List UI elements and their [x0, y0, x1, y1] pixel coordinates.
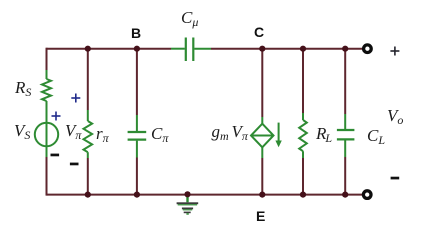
- wire: top rail left of C_mu (node B net): [47, 48, 172, 50]
- junction dot at dependent source bottom: [259, 192, 265, 198]
- junction dot node B at r_pi top: [85, 46, 91, 52]
- wire: r_pi branch verticals: [87, 48, 89, 196]
- wire: C_pi branch verticals: [136, 48, 138, 196]
- junction dot at ground (node E): [184, 191, 190, 197]
- minus sign of V_S: [51, 154, 60, 157]
- svg-text:C: C: [254, 24, 264, 40]
- voltage source V_S: [35, 123, 58, 157]
- wire: R_L branch verticals: [302, 48, 304, 196]
- wire: dependent source branch verticals: [261, 48, 263, 196]
- output terminal top (ring): [364, 45, 372, 53]
- junction dot at C_L top: [342, 46, 348, 52]
- capacitor C_pi: [128, 115, 147, 158]
- junction dot at R_L bottom: [300, 192, 306, 198]
- wire: top rail right of C_mu to output terminal (node C net): [211, 48, 363, 50]
- svg-text:B: B: [131, 25, 141, 41]
- ground symbol: [177, 195, 199, 215]
- resistor R_L: [299, 113, 307, 158]
- svg-text:E: E: [256, 208, 265, 224]
- capacitor C_L: [337, 114, 355, 157]
- junction dot at r_pi bottom: [85, 192, 91, 198]
- wire: C_L branch verticals: [344, 48, 346, 196]
- junction dot at C_pi bottom: [134, 192, 140, 198]
- output terminal bottom (ring): [363, 191, 371, 199]
- wire: left source branch vertical segments: [46, 48, 48, 196]
- wire: bottom rail (node E net): [47, 194, 363, 196]
- minus sign of V_pi: [70, 163, 79, 166]
- capacitor C_mu: [171, 38, 211, 62]
- plus sign of V_o: [390, 47, 399, 56]
- resistor R_S: [42, 70, 51, 123]
- junction dot at C_pi top: [134, 46, 140, 52]
- resistor r_pi: [84, 110, 93, 158]
- junction dot at R_L top: [300, 46, 306, 52]
- plus sign of V_pi: [71, 94, 80, 103]
- minus sign of V_o: [391, 177, 400, 180]
- current direction arrow of dependent source: [275, 123, 281, 148]
- junction dot at C_L bottom: [342, 192, 348, 198]
- plus sign of V_S: [52, 112, 61, 121]
- dependent current source g_m*V_pi (diamond): [251, 117, 274, 158]
- junction dot at dependent source top (node C): [259, 46, 265, 52]
